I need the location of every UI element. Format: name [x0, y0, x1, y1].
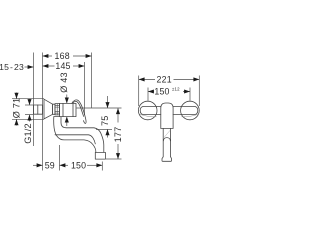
svg-text:150: 150	[154, 87, 169, 97]
svg-text:G1/2: G1/2	[23, 123, 33, 144]
svg-text:221: 221	[157, 74, 172, 84]
svg-text:75: 75	[100, 116, 110, 127]
svg-text:Ø 71: Ø 71	[11, 98, 21, 119]
svg-text:±12: ±12	[172, 87, 180, 92]
svg-text:Ø 43: Ø 43	[59, 72, 69, 93]
svg-text:15 - 23: 15 - 23	[0, 62, 24, 72]
svg-text:145: 145	[55, 61, 70, 71]
svg-text:177: 177	[113, 127, 123, 143]
svg-text:59: 59	[45, 160, 55, 170]
svg-text:150: 150	[71, 160, 86, 170]
svg-text:168: 168	[55, 51, 70, 61]
